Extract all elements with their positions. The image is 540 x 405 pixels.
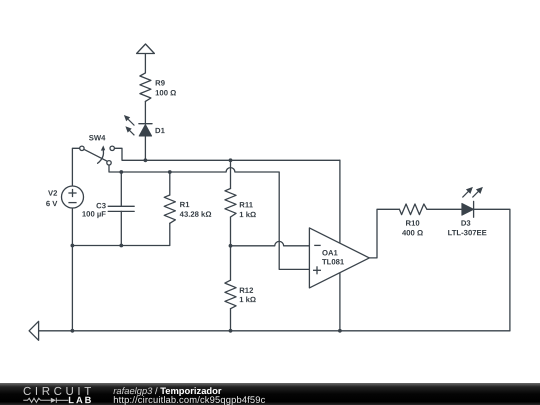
svg-text:SW4: SW4 [89,133,106,142]
svg-text:100 Ω: 100 Ω [155,88,176,97]
svg-text:LAB: LAB [68,395,93,405]
svg-text:D1: D1 [155,126,166,135]
svg-text:D3: D3 [461,219,471,228]
svg-text:http://circuitlab.com/ck95qgpb: http://circuitlab.com/ck95qgpb4f59c [113,394,265,405]
svg-text:400 Ω: 400 Ω [402,228,423,237]
svg-text:43.28 kΩ: 43.28 kΩ [180,210,212,219]
svg-text:TL081: TL081 [322,257,345,266]
svg-text:100 µF: 100 µF [82,210,106,219]
svg-text:6 V: 6 V [46,199,58,208]
svg-text:OA1: OA1 [322,248,339,257]
svg-text:1 kΩ: 1 kΩ [239,295,256,304]
svg-text:R11: R11 [239,200,253,209]
svg-text:R10: R10 [406,219,420,228]
svg-text:1 kΩ: 1 kΩ [239,210,256,219]
svg-text:R9: R9 [155,79,165,88]
svg-text:LTL-307EE: LTL-307EE [448,228,487,237]
svg-text:R12: R12 [239,286,253,295]
svg-text:R1: R1 [180,200,191,209]
svg-text:V2: V2 [48,189,57,198]
